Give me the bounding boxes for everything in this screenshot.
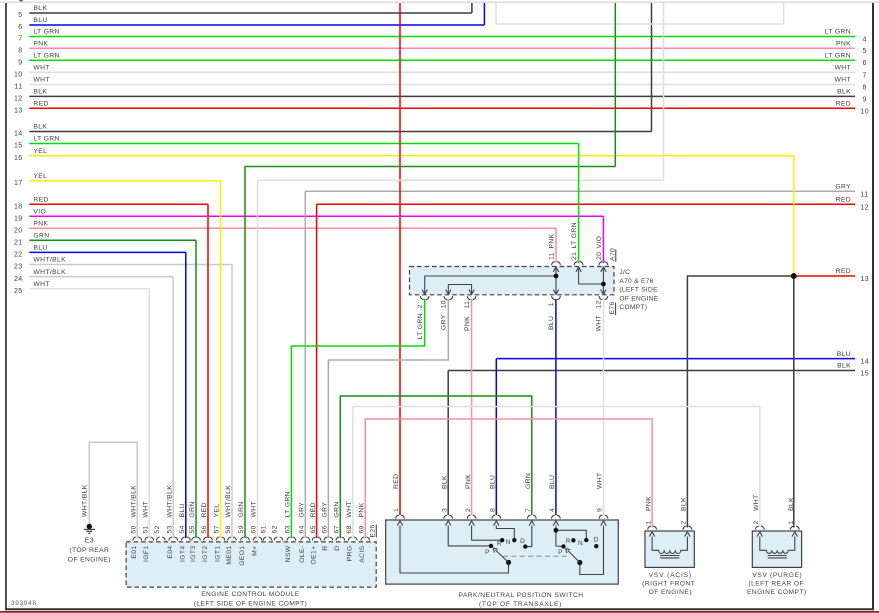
svg-text:3: 3 [441,508,448,512]
VSV ACIS coil [652,537,687,554]
svg-text:D: D [334,546,341,551]
node splice YEL/BLK/RED [791,273,797,279]
svg-text:(LEFT REAR OF: (LEFT REAR OF [748,581,804,588]
P/N switch right arm [568,551,580,563]
svg-text:61: 61 [261,525,268,533]
svg-text:68: 68 [346,525,353,533]
wire 18 RED (left) [29,203,208,205]
svg-text:66: 66 [322,525,329,533]
P/N switch pin 2 [467,515,470,519]
svg-text:63: 63 [285,525,292,533]
svg-text:64: 64 [299,525,306,533]
svg-text:LT GRN: LT GRN [571,222,578,248]
svg-text:OF ENGINE): OF ENGINE) [649,589,692,596]
ECM pin 61 [263,537,266,541]
svg-text:BLK: BLK [33,124,47,131]
svg-text:PNK: PNK [464,316,471,331]
svg-text:7: 7 [525,508,532,512]
svg-text:BLU: BLU [548,316,555,330]
ECM pin 52 [156,537,159,541]
wire 8 PNK (left) [29,47,855,49]
svg-text:RED: RED [836,268,851,275]
svg-text:ME01: ME01 [226,546,233,565]
wire BLU riser to top (from wire 6) [483,3,485,25]
svg-text:IGT1: IGT1 [214,546,221,563]
svg-text:PNK: PNK [836,40,851,47]
wire WHT drop (wire 25 to ECM pin 51) [148,289,150,538]
svg-text:1: 1 [788,520,795,524]
svg-text:VIO: VIO [596,236,603,249]
svg-text:D: D [520,538,525,545]
junction connector J/C A70 & E76 [410,267,615,295]
svg-text:50: 50 [130,525,137,533]
svg-text:8: 8 [863,85,867,92]
wire BLK riser to top (from wire 5) [471,3,473,13]
svg-text:PARK/NEUTRAL POSITION SWITCH: PARK/NEUTRAL POSITION SWITCH [458,592,583,599]
svg-text:IGF1: IGF1 [143,546,150,563]
J/C internal: pin 11 to pins 1 and 2 [555,267,557,295]
svg-text:VIO: VIO [33,209,46,216]
svg-text:E04: E04 [167,546,174,559]
wire 23 WHT/BLK (left) [29,264,232,266]
svg-text:2: 2 [681,520,688,524]
svg-text:WHT: WHT [834,77,851,84]
P/N switch pin 8 [492,515,495,519]
svg-text:E76: E76 [609,301,616,314]
ECM pin 62 [274,537,277,541]
svg-text:WHT/BLK: WHT/BLK [130,485,137,518]
svg-text:15: 15 [14,143,23,150]
svg-text:18: 18 [14,204,23,211]
svg-text:62: 62 [272,525,279,533]
ECM pin 55 IGT3 [192,537,195,541]
svg-text:A70: A70 [609,248,616,261]
svg-text:10: 10 [14,72,23,79]
wire GRN drop (wire 21 to ECM pin 55) [195,240,197,538]
svg-text:LT GRN: LT GRN [417,313,424,339]
svg-text:25: 25 [14,288,23,295]
wire WHT jog left vertical [495,3,497,24]
svg-text:VSV (ACIS): VSV (ACIS) [649,572,692,579]
svg-text:R: R [322,546,329,551]
svg-text:9: 9 [18,59,22,66]
wire RED drop (wire 18 to ECM pin 56) [207,204,209,538]
VSV PURGE pin 1 [790,526,793,530]
svg-text:BLK: BLK [837,363,851,370]
svg-text:58: 58 [225,525,232,533]
svg-text:YEL: YEL [214,504,221,518]
svg-text:P: P [485,549,490,556]
svg-text:PNK: PNK [465,474,472,489]
wire BLU wire14 drop to P/N switch pin 8 [495,359,497,515]
svg-text:52: 52 [154,525,161,533]
svg-text:BLU: BLU [33,245,47,252]
svg-text:R: R [566,538,571,545]
svg-text:16: 16 [14,155,23,162]
svg-text:R: R [497,541,502,548]
svg-text:14: 14 [14,131,23,138]
border left [5,3,7,610]
svg-text:WHT: WHT [33,281,50,288]
svg-text:6: 6 [18,24,22,31]
ECM pin 69 ACIS [361,537,364,541]
wire 15 BLK (right) [448,370,855,372]
svg-text:LT GRN: LT GRN [33,29,59,36]
svg-text:RED: RED [836,197,851,204]
svg-text:BLU: BLU [33,17,47,24]
svg-text:VSV (PURGE): VSV (PURGE) [752,572,802,579]
svg-text:57: 57 [214,525,221,533]
svg-text:RED: RED [310,502,317,517]
P/N switch pin 7 [527,515,530,519]
svg-text:WHT/BLK: WHT/BLK [33,257,66,264]
svg-text:WHT: WHT [33,77,50,84]
wire BLK from splice to VSV ACIS pin 2 [687,276,793,528]
ECM pin 50 E01 [133,537,136,541]
svg-text:PNK: PNK [33,40,48,47]
svg-text:11: 11 [861,191,869,198]
svg-text:15: 15 [861,371,870,378]
svg-text:4: 4 [549,508,556,512]
svg-text:WHT/BLK: WHT/BLK [82,484,89,517]
wire RED riser (top to P/N switch pin 1) [399,3,401,515]
ECM pin 59 GEO1 [241,537,244,541]
svg-text:OLE-: OLE- [299,546,306,563]
svg-text:N: N [578,540,583,547]
svg-text:GEO1: GEO1 [239,546,246,566]
ECM pin 57 IGT1 [216,537,219,541]
svg-text:GRY: GRY [835,184,851,191]
J/C top pin cup [574,262,577,266]
wire 25 WHT (left) [29,288,149,290]
P/N switch right contacts [556,526,562,547]
svg-text:BLU: BLU [179,503,186,517]
ECM pin 65 OE1+ [312,537,315,541]
svg-text:14: 14 [861,359,870,366]
svg-text:LT GRN: LT GRN [33,136,59,143]
wire 17 YEL (left) [29,180,220,182]
P/N switch mechanical link dashed [503,555,570,557]
svg-text:12: 12 [14,96,23,103]
J/C bottom pin cup [467,296,470,300]
svg-text:GRY: GRY [441,314,448,330]
svg-text:12: 12 [596,300,603,308]
ECM pin 54 IGT4 [181,537,184,541]
svg-text:12: 12 [861,204,870,211]
VSV ACIS pin 2 [683,526,686,530]
wire 12 RED (right) [317,203,855,205]
svg-text:1: 1 [393,508,400,512]
ECM pin 67 D [336,537,339,541]
wire PNK J/C pin 11 to P/N switch pin 2 [471,299,473,515]
svg-text:20: 20 [14,228,23,235]
svg-text:(LEFT SIDE OF ENGINE COMPT): (LEFT SIDE OF ENGINE COMPT) [194,601,308,608]
svg-text:69: 69 [359,525,366,533]
svg-text:GRN: GRN [33,233,49,240]
svg-text:RED: RED [33,197,48,204]
wire 14 BLK (left) [29,131,651,133]
svg-text:ENGINE CONTROL MODULE: ENGINE CONTROL MODULE [201,591,300,598]
wire 7 LT GRN (left) [29,36,855,38]
J/C internal: pins 21/20 to pin 12 [578,267,580,285]
svg-text:RED: RED [201,502,208,517]
ECM pin 63 NSW [287,537,290,541]
svg-text:GRN: GRN [189,501,196,517]
svg-text:55: 55 [189,525,196,533]
svg-text:BLU: BLU [837,351,851,358]
svg-text:PNK: PNK [645,496,652,511]
wire GRN branch to ECM pin 59 [245,167,615,539]
svg-text:1: 1 [548,302,555,306]
svg-text:21: 21 [14,240,23,247]
wire WHT ECM pin 68 to VSV PURGE pin 2 [353,407,760,539]
svg-text:YEL: YEL [33,173,47,180]
svg-text:21: 21 [571,252,578,260]
svg-text:BLK: BLK [681,497,688,511]
wire RED drop (wire 12 right to ECM pin 65) [316,204,318,538]
svg-text:(LEFT SIDE: (LEFT SIDE [619,287,658,294]
J/C bottom pin cup [444,296,447,300]
svg-text:2: 2 [465,508,472,512]
svg-text:A70 & E76: A70 & E76 [619,278,653,285]
wire YEL drop (wire 17 to ECM pin 57) [220,181,222,538]
svg-text:6: 6 [863,60,867,67]
wire 21 GRN (left) [29,239,196,241]
svg-text:1: 1 [645,520,652,524]
VSV ACIS pin 1 [648,526,651,530]
svg-text:GRY: GRY [322,502,329,518]
ground E3 [87,524,92,529]
P/N switch pin 9 [599,515,602,519]
ECM pin 60 M+ [253,537,256,541]
svg-text:WHT: WHT [834,65,851,72]
wire 13 RED (right) [794,275,855,277]
J/C bottom pin cup [552,296,555,300]
maroon bottom rule [0,611,879,613]
svg-text:WHT: WHT [143,501,150,518]
J/C bottom pin cup [599,296,602,300]
wire WHT branch to ECM pin 60 [258,180,664,538]
wire WHT/BLK ECM pin 50 to ground E3 [89,442,137,538]
svg-text:56: 56 [201,525,208,533]
svg-text:P: P [558,549,563,556]
svg-text:WHT: WHT [597,472,604,489]
svg-text:20: 20 [596,252,603,260]
ECM pin 68 PRG [348,537,351,541]
svg-text:8: 8 [490,508,497,512]
svg-text:IGT2: IGT2 [202,546,209,563]
J/C bottom pin cup [420,296,423,300]
svg-text:RED: RED [393,474,400,489]
svg-text:67: 67 [334,525,341,533]
svg-text:WHT: WHT [753,494,760,511]
svg-text:WHT/BLK: WHT/BLK [166,485,173,518]
partial number 4 (cropped) [20,0,23,1]
P/N switch pin 4 [552,515,555,519]
svg-text:BLU: BLU [549,475,556,489]
svg-text:LT GRN: LT GRN [825,52,851,59]
svg-text:D: D [594,537,599,544]
border right [872,3,874,610]
svg-text:13: 13 [861,276,870,283]
P/N switch left contacts [400,526,509,574]
ECM pin 51 IGF1 [145,537,148,541]
svg-text:(RIGHT FRONT: (RIGHT FRONT [642,581,695,588]
wire PNK drop (wire 20 to J/C pin 11) [555,228,557,263]
wire 22 BLU (left) [29,251,186,253]
VSV PURGE pin 2 [755,526,758,530]
VSV (ACIS) box [645,531,694,567]
svg-text:OF ENGINE: OF ENGINE [619,295,658,302]
svg-text:19: 19 [14,216,23,223]
svg-text:GRN: GRN [238,501,245,517]
svg-text:LT GRN: LT GRN [285,491,292,517]
svg-text:NSW: NSW [285,545,292,562]
wire 11 GRY (right) [305,190,855,192]
wire BLK wire15 drop to P/N switch pin 3 [447,371,449,516]
park/neutral position switch box [386,520,619,584]
svg-text:8: 8 [18,47,22,54]
svg-text:54: 54 [179,525,186,533]
ECM pin 64 OLE- [301,537,304,541]
svg-text:IGT4: IGT4 [180,546,187,563]
svg-text:BLK: BLK [33,89,47,96]
svg-text:17: 17 [14,180,23,187]
svg-text:WHT/BLK: WHT/BLK [33,269,66,276]
svg-text:5: 5 [863,48,867,55]
wire WHT/BLK drop (wire 23 to ECM pin 58) [231,265,233,539]
svg-text:4: 4 [863,37,867,44]
wire VIO drop (wire 19 to J/C pin 20) [602,216,604,263]
svg-text:OE1+: OE1+ [310,546,317,565]
wire 15 LT GRN (left) [29,143,578,145]
svg-text:59: 59 [238,525,245,533]
svg-text:ENGINE COMPT): ENGINE COMPT) [747,589,807,596]
J/C internal: bridge pins 10-11 [448,285,471,295]
svg-text:7: 7 [863,72,867,79]
svg-text:WHT/BLK: WHT/BLK [225,485,232,518]
svg-text:13: 13 [14,108,23,115]
ECM pin 66 R [324,537,327,541]
wire YEL drop (wire 16 to splice node) [793,156,795,276]
svg-text:YEL: YEL [33,148,47,155]
svg-text:22: 22 [14,252,23,259]
wire 20 PNK (left) [29,227,556,229]
engine control module ECM box [126,542,376,587]
svg-text:PRG: PRG [347,546,354,562]
svg-text:11: 11 [549,252,556,260]
svg-text:BLK: BLK [33,5,47,12]
P/N switch pin 3 [444,515,447,519]
svg-text:PNK: PNK [549,233,556,248]
svg-text:BLK: BLK [441,475,448,489]
svg-text:10: 10 [441,300,448,308]
wire LT GRN J/C pin 2 to ECM pin 63 [291,299,424,538]
svg-text:51: 51 [143,525,150,533]
svg-text:9: 9 [597,508,604,512]
wire 9 LT GRN (left) [29,59,855,61]
VSV PURGE coil [760,537,795,554]
ECM pin 56 IGT2 [204,537,207,541]
svg-text:ACIS: ACIS [359,545,366,562]
wire WHT/BLK drop (wire 24 to ECM pin 53) [172,277,174,538]
svg-text:(TOP OF TRANSAXLE): (TOP OF TRANSAXLE) [479,601,562,608]
wire GRN ECM pin 67 to P/N switch pin 7 [340,396,532,538]
svg-text:65: 65 [310,525,317,533]
svg-text:LT GRN: LT GRN [33,52,59,59]
wire pane-edge rule (cropped wires above) [0,1,879,3]
wire 5 BLK (left) [29,12,472,14]
svg-text:23: 23 [14,264,23,271]
svg-text:9: 9 [863,96,867,103]
svg-text:7: 7 [18,36,22,43]
wire 10 WHT (left) [29,71,855,73]
svg-text:PNK: PNK [33,221,48,228]
wire WHT jog bottom [496,23,784,25]
wire 16 YEL (left) [29,155,794,157]
svg-text:53: 53 [166,525,173,533]
svg-text:RED: RED [33,101,48,108]
wire BLK riser (top to wire 14) [651,3,653,132]
svg-text:OF ENGINE): OF ENGINE) [68,557,111,564]
svg-text:WHT: WHT [251,501,258,518]
wire BLU J/C pin 1 to P/N switch pin 4 [555,299,557,515]
svg-text:E01: E01 [131,546,138,559]
wire 19 VIO (left) [29,215,603,217]
wire 13 RED (left) [29,107,855,109]
svg-text:10: 10 [861,108,870,115]
svg-text:E26: E26 [370,524,377,537]
P/N switch left arm [495,550,508,562]
wire GRY drop (wire 11 right to ECM pin 64) [304,191,306,538]
border bottom [5,608,874,610]
wire WHT jog right vertical [783,3,785,24]
svg-text:N: N [506,539,511,546]
svg-text:5: 5 [18,12,22,19]
svg-text:WHT: WHT [33,65,50,72]
svg-text:BLU: BLU [490,475,497,489]
svg-text:IGT3: IGT3 [190,546,197,563]
svg-text:WHT: WHT [596,315,603,332]
wire BLU drop (wire 22 to ECM pin 54) [185,252,187,538]
svg-text:24: 24 [14,276,23,283]
J/C top pin cup [552,262,555,266]
wire WHT J/C pin 12 to P/N switch pin 9 [603,299,605,515]
svg-text:J/C: J/C [619,269,630,276]
svg-text:RED: RED [836,101,851,108]
VSV (PURGE) box [752,531,801,567]
wire 11 WHT (left) [29,84,855,86]
svg-text:PNK: PNK [359,502,366,517]
svg-text:11: 11 [15,84,23,91]
J/C top pin cup [599,262,602,266]
svg-text:GRN: GRN [334,501,341,517]
svg-text:BLK: BLK [837,89,851,96]
svg-text:GRY: GRY [299,502,306,518]
wire BLK splice to VSV PURGE pin 1 [793,276,795,528]
svg-text:COMPT): COMPT) [619,304,647,311]
P/N switch pin 1 [396,515,399,519]
svg-text:(TOP REAR: (TOP REAR [69,547,109,554]
svg-text:60: 60 [251,525,258,533]
wire WHT riser (top to ECM pin 60 branch) [663,3,665,180]
wire 14 BLU (right) [496,358,855,360]
svg-text:2: 2 [753,520,760,524]
wire 6 BLU (left) [29,24,484,26]
svg-text:M+: M+ [251,546,258,556]
svg-text:2: 2 [417,304,424,308]
wire GRY J/C pin 10 to ECM pin 66 [328,299,448,538]
